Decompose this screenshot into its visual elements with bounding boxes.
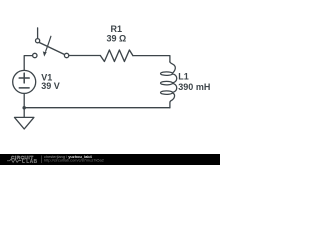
svg-text:39 V: 39 V	[41, 81, 60, 91]
svg-text:http://circuitlab.com/c/87muz7: http://circuitlab.com/c/87muz7k5a2	[44, 158, 104, 163]
svg-text:L1: L1	[178, 72, 189, 82]
svg-text:LAB: LAB	[26, 159, 37, 165]
svg-text:39 Ω: 39 Ω	[107, 34, 127, 44]
svg-text:390 mH: 390 mH	[178, 82, 210, 92]
